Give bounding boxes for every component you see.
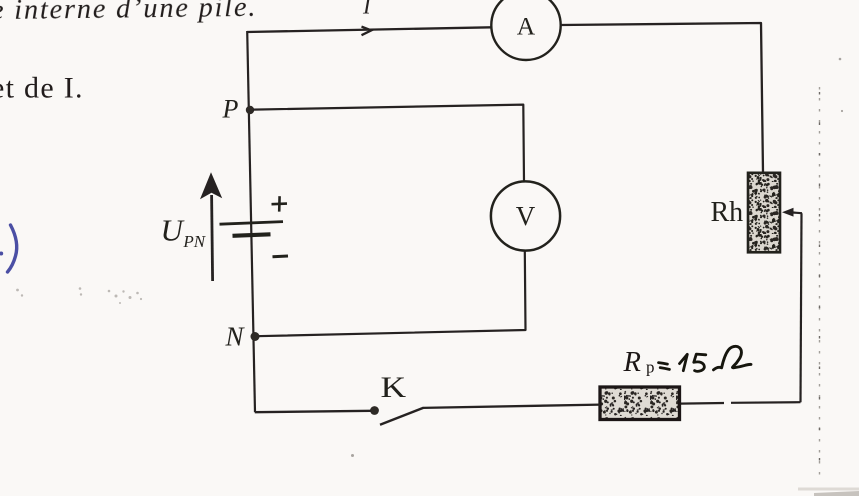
current direction arrow on top wire (362, 27, 372, 36)
voltmeter V (491, 181, 560, 250)
svg-text:K: K (381, 371, 407, 404)
wire: P to voltmeter branch top (253, 105, 524, 182)
svg-text:R: R (623, 347, 641, 378)
svg-text:A: A (517, 12, 536, 41)
battery: short negative plate (233, 234, 271, 236)
switch pivot contact dot (370, 406, 379, 415)
scan shadow bottom-right corner (798, 488, 859, 496)
battery + sign (272, 196, 288, 211)
rheostat Rh body (748, 173, 780, 253)
wire: ammeter to top-right corner then down to rheostat (561, 23, 763, 173)
svg-text:N: N (225, 322, 246, 352)
faint pencil marks (16, 287, 142, 304)
svg-text:V: V (516, 201, 536, 231)
battery: long positive plate (220, 222, 284, 225)
node N (251, 332, 260, 341)
UPN voltage arrow (200, 172, 222, 281)
scanner artifact: dashed vertical line right side (819, 87, 821, 483)
wire: wiper arrow down right side (801, 213, 802, 402)
svg-text:p: p (646, 358, 655, 377)
svg-text:e interne d’une pile.: e interne d’une pile. (0, 0, 257, 26)
wire: voltmeter bottom down and left to N (256, 251, 526, 337)
svg-text:I: I (362, 0, 372, 19)
wire: bottom-right horizontal to resistor (scan gap) (680, 402, 801, 403)
ammeter A (491, 0, 560, 60)
svg-text:et de I.: et de I. (0, 71, 84, 104)
battery - sign (273, 255, 289, 259)
small scan specks (351, 58, 843, 457)
rheostat wiper arrow (782, 208, 802, 217)
wire: switch dot to bottom-left corner (255, 411, 371, 412)
svg-text:P: P (222, 95, 239, 124)
label Rp = 15 ohm (handwritten) (623, 346, 752, 378)
switch K blade (open) (380, 408, 424, 425)
blue handwritten parenthesis (0, 225, 17, 272)
wire: top-left horizontal from corner to ammeter (247, 27, 492, 32)
node P (246, 106, 254, 114)
wire: left vertical main branch (P to battery to N to bottom) (247, 31, 255, 412)
wire: resistor to switch (423, 405, 600, 408)
svg-text:Rh: Rh (711, 197, 744, 228)
resistor Rp body (600, 387, 680, 420)
